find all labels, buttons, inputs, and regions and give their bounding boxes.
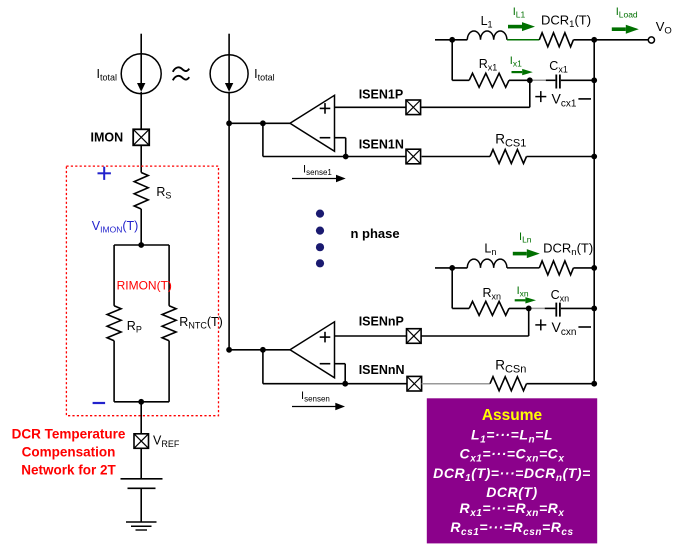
svg-text:ISENnN: ISENnN (359, 363, 405, 377)
svg-text:Assume: Assume (482, 407, 543, 424)
svg-text:DCR Temperature: DCR Temperature (12, 427, 126, 442)
svg-text:DCR(T): DCR(T) (486, 484, 538, 500)
svg-text:DCRn(T): DCRn(T) (543, 240, 593, 257)
svg-text:Network for 2T: Network for 2T (21, 463, 116, 478)
svg-text:ISEN1N: ISEN1N (359, 138, 404, 152)
svg-text:RIMON(T): RIMON(T) (117, 279, 172, 293)
svg-text:ISENnP: ISENnP (359, 315, 404, 329)
svg-text:IMON: IMON (91, 131, 124, 145)
svg-text:Compensation: Compensation (22, 445, 116, 460)
svg-text:ISEN1P: ISEN1P (359, 88, 403, 102)
svg-text:DCR1(T): DCR1(T) (541, 12, 591, 30)
svg-text:n phase: n phase (351, 226, 400, 241)
